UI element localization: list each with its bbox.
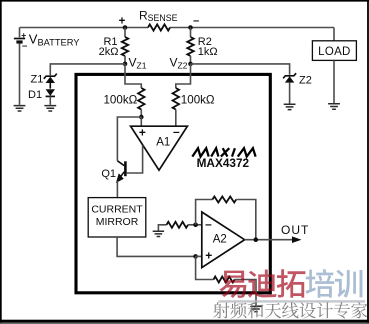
CURRENT MIRROR box (88, 198, 146, 237)
node: A2 + input (193, 254, 198, 259)
battery VBATTERY (19, 28, 21, 38)
ground (Z2) (284, 104, 296, 109)
watermark logo 易迪拓培训 (219, 269, 362, 298)
svg-text:VZ2: VZ2 (170, 56, 188, 71)
ground (D1) (44, 106, 56, 111)
resistor A2 + to ground (214, 277, 235, 283)
svg-text:A2: A2 (213, 234, 227, 246)
wire VZ1 down to 100k (125, 64, 141, 88)
LOAD box (312, 41, 356, 61)
MAXIM logo (192, 148, 255, 156)
svg-text:OUT: OUT (281, 223, 309, 237)
svg-text:100kΩ: 100kΩ (103, 94, 137, 107)
wire VZ2 to Z2 (191, 64, 290, 75)
svg-text:–: – (173, 125, 180, 139)
svg-text:MAX4372: MAX4372 (197, 156, 250, 170)
wire CM to A2 + input (117, 237, 196, 256)
node VZ1 (123, 62, 128, 67)
wire A2 output to OUT (245, 239, 293, 241)
svg-text:+: + (205, 249, 212, 263)
wire VZ2 down to 100k (176, 64, 191, 88)
diode D1 (46, 89, 55, 96)
wire to LOAD (333, 28, 335, 41)
node: top rail / R2 junction (188, 25, 193, 30)
svg-text:2kΩ: 2kΩ (99, 46, 119, 58)
zener Z1 (44, 74, 57, 79)
node: output (254, 237, 259, 242)
svg-text:A1: A1 (156, 137, 170, 149)
svg-text:Q1: Q1 (101, 168, 116, 180)
node VZ2 (188, 62, 193, 67)
arrow OUT (292, 236, 302, 243)
svg-text:Z1: Z1 (31, 74, 44, 86)
wire Q1 base to A1 (127, 145, 143, 173)
transistor Q1 (124, 161, 127, 176)
ground (A2 - network) (158, 225, 166, 232)
svg-text:100kΩ: 100kΩ (181, 94, 215, 107)
IC boundary box MAX4372 (76, 74, 270, 292)
svg-text:VBATTERY: VBATTERY (29, 32, 80, 48)
svg-text:LOAD: LOAD (318, 46, 351, 58)
svg-text:VZ1: VZ1 (129, 56, 147, 71)
resistor 100k (right) (173, 88, 179, 110)
svg-text:RSENSE: RSENSE (139, 9, 178, 24)
watermark text 射频和天线设计专家 (213, 302, 367, 318)
resistor feedback (212, 197, 236, 203)
wire VZ1 to Z1 (50, 64, 125, 75)
ground (LOAD) (328, 104, 340, 109)
ground (battery) (14, 106, 26, 111)
feedback loop wire (196, 200, 213, 225)
ground (A2 + network) (250, 306, 261, 311)
wire node to A1 + input (140, 117, 142, 126)
svg-text:–: – (22, 41, 27, 52)
svg-text:Z2: Z2 (299, 75, 312, 87)
svg-text:+: + (139, 125, 146, 139)
wire A2 + to ground resistor (196, 256, 214, 279)
svg-text:+: + (21, 30, 26, 40)
wire: top rail from battery to LOAD corner (20, 27, 149, 29)
resistor 100k (left) (138, 88, 144, 110)
svg-text:–: – (193, 15, 199, 27)
resistor R2 1k (190, 28, 192, 38)
op-amp A2 (202, 212, 245, 268)
svg-text:–: – (205, 217, 212, 231)
resistor R1 2k (124, 28, 126, 38)
svg-text:CURRENT: CURRENT (91, 204, 143, 216)
svg-text:D1: D1 (28, 89, 42, 101)
wire node to Q1 collector (117, 117, 141, 161)
node: A2 - input (193, 223, 198, 228)
svg-text:1kΩ: 1kΩ (198, 46, 218, 58)
zener Z2 (283, 73, 296, 78)
node: A1 noninverting input junction (139, 115, 144, 120)
node: top rail / R1 junction (123, 25, 128, 30)
op-amp A1 (131, 126, 188, 170)
resistor RSENSE (148, 24, 170, 30)
svg-text:MIRROR: MIRROR (96, 216, 139, 228)
watermark underline (219, 300, 366, 302)
resistor 100k to A2 - input (167, 222, 189, 228)
